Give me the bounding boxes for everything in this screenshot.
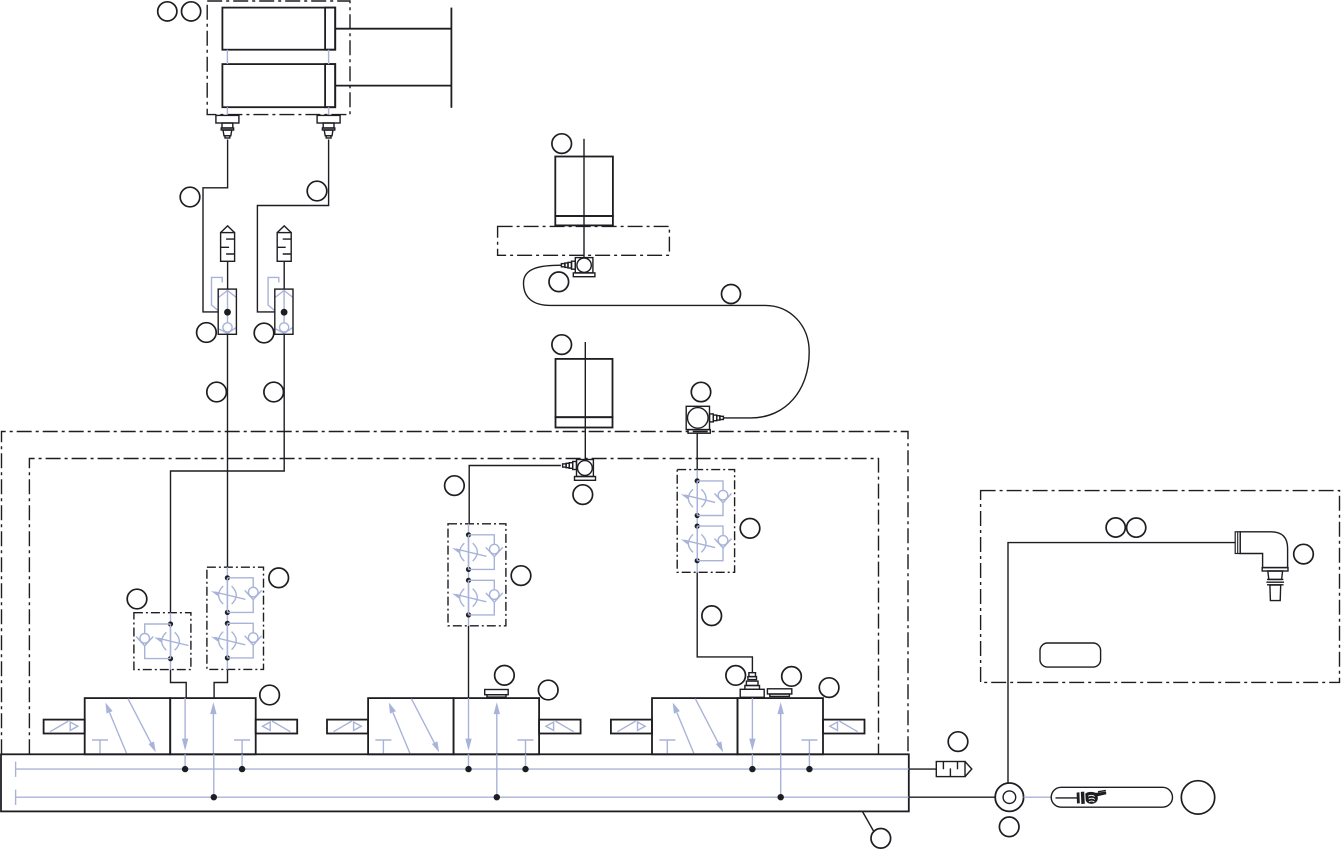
push-in fitting on head port [216, 115, 239, 138]
elbow fitting B [575, 460, 596, 481]
cylinder port stubs [227, 50, 328, 116]
wire silencer 1 to relief valve 1 [227, 261, 229, 289]
balloon 29 [948, 732, 968, 752]
cylinder A body [555, 157, 613, 217]
cylinder A centerline [583, 139, 585, 258]
V2 port drops [469, 754, 526, 797]
balloon 1 [158, 2, 177, 21]
elbow fitting C barbs [710, 414, 724, 422]
speed controller SC0 [162, 621, 180, 661]
elbow connector flange [1262, 568, 1288, 571]
twin cylinder upper tube [222, 8, 335, 50]
balloon 27 [819, 678, 839, 698]
outer phantom enclosure [2, 432, 909, 755]
wire single speed controller box to valve V1 port A [171, 670, 187, 699]
wire relief valve 2 to single speed controller box [171, 334, 285, 613]
upper piston rod [335, 28, 451, 30]
balloon 2 [182, 2, 201, 21]
balloon 13 [549, 272, 569, 292]
speed controller box 1 [207, 567, 264, 669]
capsule label [1051, 787, 1172, 807]
pale link to capsule [1024, 796, 1052, 798]
wire from left cylinder rod port down to relief valve 2 [257, 140, 328, 312]
speed controller SC3b [688, 524, 706, 564]
push-in fitting on rod port [317, 115, 340, 138]
balloon 6 [254, 323, 274, 343]
balloon 7 [207, 382, 227, 402]
work plate phantom section [498, 226, 670, 255]
exhaust rail [16, 790, 909, 805]
balloon 12 cylinder A [552, 134, 572, 154]
balloon 28 [871, 829, 891, 849]
manicule hand icon [1077, 790, 1107, 804]
balloon 5 [197, 323, 217, 343]
speed controller box 3 [677, 470, 734, 573]
speed controller SC2a [460, 532, 478, 572]
speed controller SC2b [460, 578, 478, 618]
elbow connector collar [1235, 532, 1240, 554]
tube from joint A looping right [524, 265, 810, 418]
blanking plug V2 port B [485, 690, 509, 698]
blanking plug V3 port B [767, 689, 791, 697]
manifold base block [1, 754, 909, 811]
exhaust port line to union [909, 796, 995, 798]
balloon 31 large [1181, 781, 1214, 814]
elbow fitting A barbs [561, 261, 575, 269]
silencer on relief valve 1 [221, 226, 235, 261]
elbow connector nut [1268, 571, 1283, 579]
balloon 10 [269, 568, 289, 588]
speed controller SC3a [688, 478, 706, 518]
leader line manifold [862, 811, 873, 831]
wire cylinder C elbow down to speed controller box 3 [696, 434, 698, 470]
elbow connector rings [1266, 579, 1284, 584]
relief valve 2 body [268, 277, 293, 334]
solenoid valve V3 [611, 698, 865, 754]
V3 port drops [752, 754, 809, 797]
balloon 23 [495, 666, 515, 686]
rounded label plate [1040, 643, 1101, 667]
cylinder A rod cover band [555, 216, 613, 225]
rod end plate [450, 8, 452, 108]
balloon 19 [511, 566, 531, 586]
balloon 24 [538, 680, 558, 700]
balloon 8 [264, 382, 284, 402]
inner phantom enclosure [29, 459, 878, 755]
silencer on manifold [936, 762, 972, 777]
speed controller SC1a [219, 575, 237, 615]
wire cylinder B elbow to speed controller box 2 [469, 466, 561, 526]
cylinder B rod cover band [556, 417, 613, 427]
balloon 32 [1106, 518, 1125, 537]
balloon 18 [573, 485, 593, 505]
twin cylinder lower tube [222, 64, 335, 107]
twin cylinder phantom frame [207, 1, 350, 115]
floating joint A [573, 258, 595, 277]
balloon 20 [740, 519, 760, 539]
silencer on relief valve 2 [277, 226, 291, 261]
elbow fitting C [686, 406, 710, 433]
wire speed controller box 2 to valve V2 port A [468, 626, 470, 698]
balloon 21 [702, 606, 722, 626]
wire from left cylinder head port down to relief valve 1 [203, 140, 228, 312]
balloon 4 [307, 181, 327, 201]
supply rail [16, 762, 909, 777]
wire speed controller box 1 to valve V1 port B [214, 669, 227, 698]
wire speed controller box 3 to valve V3 fitting [697, 573, 752, 674]
fitting on V3 port A [740, 673, 764, 698]
balloon 26 [782, 667, 802, 687]
balloon 17 [445, 476, 465, 496]
balloon 30 [999, 817, 1019, 837]
balloon 33 [1127, 518, 1146, 537]
balloon 34 [1294, 544, 1314, 564]
supply port line to silencer [909, 768, 937, 770]
balloon 25 [726, 666, 746, 686]
solenoid valve V1 [44, 698, 298, 754]
rail junction dots [182, 766, 813, 801]
lower piston rod [335, 85, 451, 87]
speed controller box 2 [448, 524, 506, 626]
wire relief valve 1 to speed controller box 1 [227, 334, 229, 567]
elbow fitting B barbs [563, 462, 577, 470]
balloon 22 [260, 685, 280, 705]
wire right box corner to bulkhead union [1008, 543, 1235, 783]
elbow connector body [1240, 532, 1287, 568]
solenoid valve V2 [327, 698, 581, 754]
wire silencer 2 to relief valve 2 [283, 261, 285, 289]
bulkhead union [995, 783, 1023, 811]
twin cylinder upper piston [325, 8, 335, 50]
balloon 9 [127, 589, 147, 609]
single speed controller box [134, 613, 191, 670]
relief valve 1 body [212, 277, 237, 334]
balloon 15 above elbow C [691, 382, 710, 401]
speed controller SC1b [219, 621, 237, 661]
cylinder B centerline [584, 342, 586, 460]
balloon 3 [180, 187, 200, 207]
elbow connector stem [1270, 585, 1281, 601]
cylinder B body [556, 359, 613, 417]
balloon 14 on tube [722, 285, 741, 304]
balloon 16 cylinder B [552, 335, 572, 355]
right phantom enclosure [981, 491, 1340, 683]
V1 port drops [185, 754, 242, 797]
twin cylinder lower piston [325, 64, 335, 107]
